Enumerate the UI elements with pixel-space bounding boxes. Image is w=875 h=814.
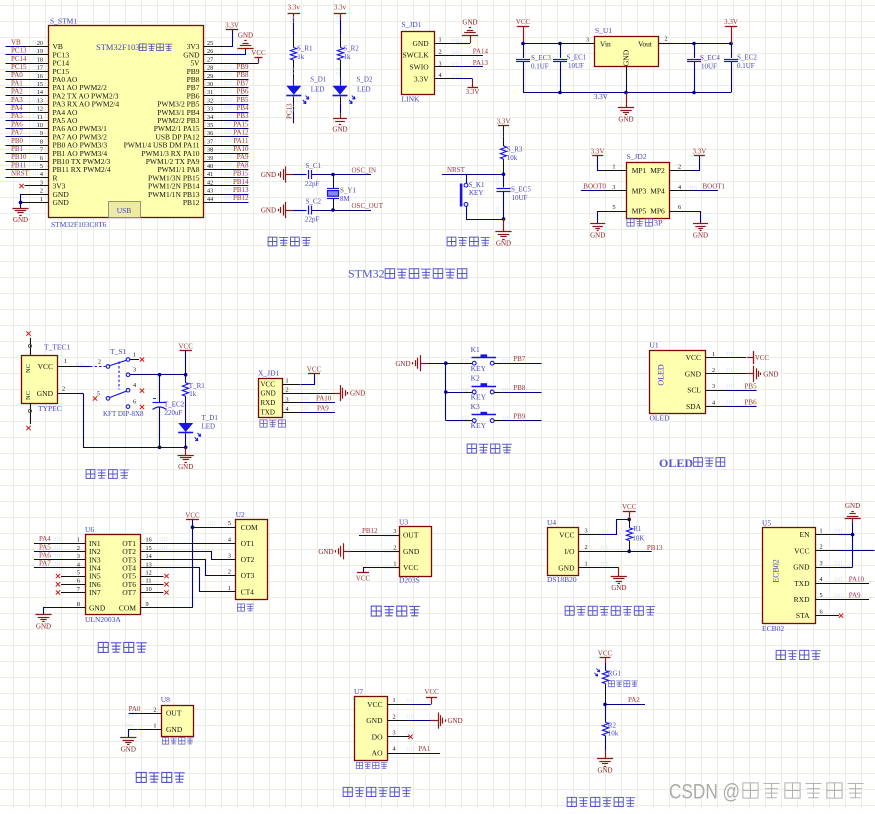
power VCC above U2 [185,511,200,519]
svg-text:28: 28 [207,65,213,72]
wire T_D1 to ground rail [158,434,188,450]
svg-text:3: 3 [586,37,589,44]
wire net PB5 [225,96,249,105]
svg-text:3.3V: 3.3V [692,148,706,156]
resistor R1 10K pullup [626,519,644,551]
svg-text:VCC: VCC [622,503,637,511]
svg-text:PA4: PA4 [11,104,23,112]
svg-text:NRST: NRST [11,170,30,178]
wire U3 GND [351,551,384,553]
svg-text:3: 3 [820,560,823,567]
svg-text:5: 5 [612,204,615,211]
svg-text:EN: EN [800,530,811,539]
ground GND right of X_JD1 [333,385,365,401]
svg-text:PB14: PB14 [233,178,249,186]
svg-text:MP1: MP1 [632,166,647,175]
svg-text:VCC: VCC [794,546,809,555]
wire regulator GND pin down [626,67,628,108]
LED S_D1 [286,76,326,104]
pin 29 PB8 of S_STM1 [187,73,228,84]
svg-text:2: 2 [665,36,668,43]
wire net PA9 at X_JD1 pin4 [282,404,335,412]
wire U6 OT2 to U2 [140,546,214,559]
svg-text:10k: 10k [608,729,619,737]
capacitor T_EC2 220uF electrolytic [153,375,185,448]
svg-text:OT3: OT3 [241,571,255,580]
svg-text:PB5: PB5 [745,382,758,390]
svg-text:GND: GND [395,360,410,368]
power VCC at regulator input [516,18,531,44]
pin 10 PA6 AO PWM3/1 of S_STM1 [25,122,108,133]
pin 1 VCC wire of T_TEC1 [57,358,106,366]
svg-text:CSDN @: CSDN @ [669,781,740,804]
svg-text:VB: VB [11,38,21,46]
capacitor S_EC5 10UF [496,174,531,219]
wire net OSC_OUT [331,202,384,212]
ground GND below S_STM1 left [12,209,28,224]
wire net NRST [6,170,40,178]
svg-text:COM: COM [241,523,258,532]
svg-text:PB15: PB15 [233,170,249,178]
svg-text:BOOT1: BOOT1 [703,183,726,191]
svg-text:GND: GND [53,198,70,207]
svg-text:T_TEC1: T_TEC1 [44,343,70,352]
svg-text:VCC: VCC [516,18,531,26]
svg-text:GND: GND [448,717,463,725]
svg-text:S_EC2: S_EC2 [737,54,757,62]
svg-text:PB1: PB1 [11,145,24,153]
pin 3 3V3 of S_STM1 [25,179,66,190]
wire net PA14 at S_JD1 pin2 [456,47,489,55]
svg-text:PA3: PA3 [11,96,23,104]
chip S_STM1 title STM32F103 [96,42,172,52]
wire to reset ground [503,219,505,232]
svg-text:OUT: OUT [403,531,419,540]
svg-text:ULN2003A: ULN2003A [85,615,121,624]
label section 电源电路 power circuit [86,470,129,479]
svg-text:16: 16 [146,537,152,544]
svg-text:4: 4 [678,184,681,191]
svg-text:OLED: OLED [650,413,671,422]
chip U3 D203S body [383,517,432,584]
pin 17 PC15 of S_STM1 [25,65,70,76]
wire U6 OT3 to U2 [140,560,214,576]
svg-text:PC14: PC14 [11,55,27,63]
label section 按键电路 key circuit [467,444,512,453]
svg-text:3.3v: 3.3v [334,4,347,12]
svg-text:STM32F103: STM32F103 [96,42,139,52]
svg-text:CT4: CT4 [241,587,255,596]
wire net PA7 at U6 IN4 [34,560,85,568]
power VCC right of U1 [747,351,769,364]
pin 36 USB DP PA12 of S_STM1 [155,130,227,141]
pin 4 R of S_STM1 [25,171,58,182]
svg-text:0.1UF: 0.1UF [737,62,755,70]
svg-text:7: 7 [40,147,43,154]
svg-text:6: 6 [820,608,823,615]
capacitor S_EC1 10UF [553,44,587,93]
svg-text:PA12: PA12 [233,129,249,137]
wire net PB10 [6,153,40,161]
svg-text:1: 1 [439,37,442,44]
svg-text:11: 11 [37,114,43,121]
svg-text:NC: NC [25,391,32,400]
crystal S_Y1 8M [327,175,356,211]
wire X_JD1 pin2 to GND [282,393,333,395]
ground GND above S_JD1 [462,19,478,36]
wire pin5 to ground [598,212,603,224]
svg-text:VCC: VCC [403,563,418,572]
LED S_D2 [333,76,373,104]
svg-text:RXD: RXD [261,399,276,407]
svg-text:3.3V: 3.3V [414,74,429,83]
svg-text:RG1: RG1 [608,670,622,678]
power 3.3V right of S_JD2 [692,148,706,156]
svg-text:GND: GND [350,390,365,398]
no-connect stub U6 IN7 [56,590,85,594]
svg-text:OSC_OUT: OSC_OUT [352,202,384,210]
svg-text:12: 12 [146,570,152,577]
capacitor S_EC3 0.1UF [516,44,551,93]
wire S_JD1 pin1 to ground [456,35,471,44]
wire T_S1 pin3 to VCC rail [130,373,188,377]
svg-text:VCC: VCC [367,700,382,709]
wire net PB11 [6,161,40,169]
svg-text:4: 4 [820,576,823,583]
wire net PB6 at U1 pin4 [728,399,758,407]
svg-text:ECB02: ECB02 [762,624,784,633]
svg-text:STA: STA [796,611,810,620]
pin 42 PWM1/2N PB14 of S_STM1 [148,179,227,190]
svg-text:DS18B20: DS18B20 [547,575,577,584]
svg-text:VCC: VCC [356,575,371,583]
no-connect X at T_S1 pin4 [140,388,144,392]
pin 14 PA2 TX AO PWM2/3 of S_STM1 [25,89,119,100]
pin stub top of T_TEC1 [26,331,31,355]
svg-text:8M: 8M [340,195,351,203]
wire S_R1 to S_D1 [291,60,294,86]
wire R2 to ground [605,736,607,759]
svg-text:MP4: MP4 [650,186,665,195]
svg-text:MP5: MP5 [632,207,647,216]
wire to power circuit ground [185,447,187,455]
pin 8 PB0 AO PWM3/3 of S_STM1 [25,138,108,149]
svg-text:2: 2 [393,713,396,720]
svg-text:2: 2 [820,544,823,551]
ground GND port at S_C1 [261,166,293,182]
wire pin2 to 3.3V [694,156,700,171]
svg-text:U1: U1 [650,341,659,350]
svg-text:STM32: STM32 [348,267,385,281]
wire S_R3 to NRST node [503,159,505,174]
switch S_K1 KEY [460,174,485,206]
svg-text:PA6: PA6 [39,552,51,560]
ground GND above U5 [845,502,861,518]
svg-text:1k: 1k [297,53,305,61]
svg-text:3.3V: 3.3V [594,93,608,101]
wire U3 VCC down [364,568,384,573]
pin 2 MP2 of S_JD2 [650,164,693,175]
ground GND of power circuit [178,456,194,471]
switch T_S1 KFT DIP-8X8 [97,347,144,418]
wire pin27 to VCC [228,57,259,63]
svg-text:GND: GND [611,584,626,592]
svg-text:PA10: PA10 [316,395,332,403]
wire net PA12 [225,129,249,137]
power VCC above X_JD1 [307,365,322,373]
pin 39 PWM1/2 TX PA9 of S_STM1 [146,155,228,166]
svg-text:GND: GND [462,19,477,27]
wire net PB8 [225,71,249,79]
svg-text:PB11: PB11 [11,161,27,169]
svg-text:5: 5 [228,520,231,527]
svg-text:2: 2 [439,48,442,55]
svg-text:D203S: D203S [399,576,420,585]
label section STM32单片机最小系统 [348,267,467,281]
op-amp U chip S_STM1 STM32F103C8T6 body [49,16,204,229]
pin 2 GND wire of T_TEC1 [57,385,83,393]
svg-text:PB9: PB9 [236,63,249,71]
no-connect stub U6 OT6 [140,582,169,586]
pin 28 PB9 of S_STM1 [187,65,228,76]
wire net NRST [442,166,505,176]
svg-text:PA8: PA8 [237,161,249,169]
svg-text:VCC: VCC [307,365,322,373]
svg-text:27: 27 [207,56,213,63]
label 光敏电阻 small [609,681,638,687]
pin 18 PC14 of S_STM1 [25,56,70,67]
svg-text:KEY: KEY [471,393,487,402]
pin 4 MP4 of S_JD2 [650,184,693,195]
svg-text:PC13: PC13 [286,103,294,119]
svg-text:I/O: I/O [565,547,576,556]
svg-text:AO: AO [372,749,383,758]
svg-text:PA10: PA10 [233,145,249,153]
pin 4 3.3V of S_JD1 [414,72,459,83]
svg-text:38: 38 [207,147,213,154]
power 3.3V at pin 25 [225,21,239,29]
svg-text:3P: 3P [654,219,663,228]
no-connect stub U6 IN5 [56,574,85,578]
label section 人体红外 human IR [371,606,419,616]
wire U7 GND right [409,720,430,722]
pin 43 PWM1/1N PB13 of S_STM1 [148,188,227,199]
svg-text:PC15: PC15 [11,63,27,71]
svg-text:TXD: TXD [261,409,275,417]
svg-text:PA0: PA0 [129,705,141,713]
wire net PC15 [6,63,40,72]
svg-text:PA15: PA15 [233,120,249,128]
svg-text:VCC: VCC [185,511,200,519]
svg-text:PB12: PB12 [183,198,200,207]
chip U4 DS18B20 body [547,518,608,584]
svg-text:Vout: Vout [638,40,653,49]
wire net PA10 at X_JD1 pin3 [282,395,335,403]
resistor S_R2 1k [337,45,359,62]
pin 12 PA4 AO of S_STM1 [25,106,79,117]
capacitor S_C1 22pF [293,162,333,188]
svg-text:U6: U6 [85,525,94,534]
wire net PB13 [225,186,249,195]
svg-text:1k: 1k [344,53,352,61]
wire GND bottom rail of power circuit [84,394,186,448]
svg-text:IN7: IN7 [89,588,101,597]
chip U1 OLED body [650,341,734,423]
pin 6 PB10 TX PWM2/3 of S_STM1 [25,155,111,166]
pin 32 PWM3/2 PB5 of S_STM1 [157,97,227,108]
svg-text:X_JD1: X_JD1 [258,369,280,378]
svg-text:PA9: PA9 [317,404,329,412]
wire net PA11 [225,137,249,146]
svg-text:OT2: OT2 [241,555,255,564]
svg-text:2: 2 [585,544,588,551]
svg-text:GND: GND [845,502,860,510]
svg-text:PB12: PB12 [362,527,378,535]
svg-text:SWCLK: SWCLK [402,51,429,60]
wire net PA4 at U6 IN1 [34,535,85,543]
svg-text:GND: GND [89,603,106,612]
no-connect stub U7 DO [387,735,413,739]
svg-text:Vin: Vin [600,40,611,49]
svg-text:VCC: VCC [598,649,613,657]
svg-text:6: 6 [678,204,681,211]
svg-text:GND: GND [366,716,383,725]
svg-text:VCC: VCC [178,342,193,350]
svg-text:PB6: PB6 [745,399,758,407]
svg-text:PB7: PB7 [236,79,249,87]
photoresistor RG1 [594,663,621,684]
label 跳线帽3P [627,219,663,228]
svg-text:10UF: 10UF [512,194,528,202]
power 3.3v rail for S_R2 [334,4,347,20]
svg-text:1: 1 [286,378,289,385]
pin 35 PWM2/1 PA15 of S_STM1 [154,122,228,133]
svg-text:S_R3: S_R3 [507,146,523,154]
svg-text:43: 43 [207,188,213,195]
wire net PA15 [225,120,249,128]
wire S_D2 cathode to ground [340,97,342,119]
svg-text:22pF: 22pF [305,216,320,224]
svg-text:1: 1 [133,352,136,359]
wire net OSC_IN [331,166,376,176]
pin 1 MP1 of S_JD2 [602,164,646,175]
pin 27 5V of S_STM1 [190,56,227,67]
label section 晶振电路 crystal circuit [268,237,311,246]
svg-text:PA1: PA1 [11,79,23,87]
pin 33 PWM3/1 PB4 of S_STM1 [157,106,227,117]
wire U8 GND down [126,724,138,737]
svg-text:2: 2 [153,706,156,713]
pin 1 GND of S_JD1 [412,37,458,48]
svg-text:PB3: PB3 [236,112,249,120]
svg-text:44: 44 [207,196,213,203]
svg-text:PA14: PA14 [473,47,489,55]
svg-text:S_EC1: S_EC1 [567,54,587,62]
wire net PA5 at U6 IN2 [34,543,85,551]
wire net PB12 at U3 OUT [359,527,383,536]
svg-text:33: 33 [207,106,213,113]
svg-text:PB11 RX PWM2/4: PB11 RX PWM2/4 [53,165,111,174]
svg-text:U5: U5 [762,518,771,527]
wire net PA8 [225,161,249,169]
svg-text:OT1: OT1 [241,539,255,548]
ground GND right of U7 [431,713,463,729]
svg-text:LED: LED [202,422,216,430]
svg-text:PA13: PA13 [473,59,489,67]
svg-text:1: 1 [585,561,588,568]
watermark CSDN [669,781,863,804]
svg-text:KFT DIP-8X8: KFT DIP-8X8 [103,410,144,418]
svg-text:PB0: PB0 [11,137,24,145]
svg-text:K1: K1 [471,345,480,354]
svg-text:GND: GND [121,745,136,753]
svg-text:OT7: OT7 [122,588,136,597]
power VCC of power circuit [178,342,193,374]
pin 13 PA3 RX AO PWM2/4 of S_STM1 [25,97,120,108]
pin 3 MP3 of S_JD2 [602,184,646,195]
svg-text:STM32F103C8T6: STM32F103C8T6 [51,220,107,229]
svg-text:10UF: 10UF [701,63,717,71]
svg-text:GND: GND [318,548,333,556]
svg-text:OUT: OUT [166,709,182,718]
svg-text:PB4: PB4 [236,104,249,112]
svg-text:220uF: 220uF [165,409,183,417]
svg-text:PA10: PA10 [849,575,865,583]
svg-text:5: 5 [77,570,80,577]
svg-text:11: 11 [146,578,152,585]
no-connect X at T_S1 pin1 [130,357,144,361]
svg-text:39: 39 [207,155,213,162]
chip U7 rain sensor body [354,687,414,761]
svg-text:RXD: RXD [794,595,810,604]
wire net PA2 [6,88,40,96]
svg-text:1: 1 [393,697,396,704]
ground GND left of U3 [318,543,350,559]
label section 步进电机 stepper motor [98,642,146,652]
wire net PB8 at K2 [494,384,541,393]
svg-text:U4: U4 [547,518,556,527]
ground GND below U4 [611,577,627,593]
wire net PA0 at U8 OUT [126,705,141,717]
wire net PA10 at U5 TXD [835,575,869,583]
power 3.3V for reset [497,117,511,125]
svg-text:3: 3 [585,528,588,535]
power VCC below U3 [356,573,371,583]
svg-text:3.3V: 3.3V [724,18,738,26]
pin 40 PWM1/1 PA8 of S_STM1 [157,163,227,174]
wire net PB3 [225,112,249,120]
svg-text:KEY: KEY [471,364,487,373]
svg-text:GND: GND [685,369,702,378]
ground GND below U6 [35,615,51,631]
svg-text:4: 4 [393,746,396,753]
pin 3 SWIO of S_JD1 [410,60,459,71]
wire pin26 to GND [228,49,246,55]
svg-text:6: 6 [40,155,43,162]
svg-text:PB9: PB9 [513,412,526,420]
resistor R2 10k [602,704,618,737]
svg-text:GND: GND [496,240,511,248]
svg-text:3.3V: 3.3V [497,117,511,125]
svg-text:TYPEC: TYPEC [38,404,62,413]
svg-text:GND: GND [36,622,51,630]
svg-text:PC13: PC13 [11,47,27,55]
pin 16 PA0 AO of S_STM1 [25,73,79,84]
wire U4 GND down [603,568,619,577]
no-connect stub U6 IN6 [56,582,85,586]
wire S_R2 to S_D2 [337,60,341,86]
svg-text:PA5: PA5 [11,112,23,120]
